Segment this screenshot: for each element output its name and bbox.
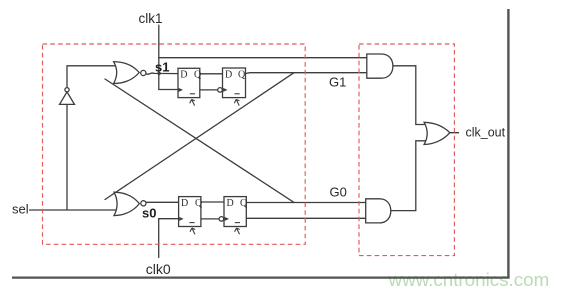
- D flip-flop 1 (top): [178, 68, 200, 97]
- reset arrow DFF1 bottom: [190, 228, 195, 234]
- node s1: [157, 72, 160, 75]
- wire sel: [30, 209, 118, 211]
- svg-text:D: D: [180, 70, 187, 81]
- clr dash DFF1 bottom: [189, 222, 194, 224]
- clr dash DFF2 top: [235, 93, 240, 95]
- wire inverter output to top NOR: [67, 66, 117, 88]
- svg-text:sel: sel: [12, 201, 29, 216]
- wire G0 line: [246, 202, 365, 204]
- wire sel to inverter: [66, 104, 68, 210]
- wire clk1 branch to AND1: [159, 57, 367, 59]
- svg-text:clk0: clk0: [146, 261, 171, 277]
- svg-text:Q: Q: [238, 70, 246, 81]
- clock triangle DFF1 bottom: [179, 217, 183, 221]
- reset arrow DFF2 top: [234, 99, 239, 105]
- wire feedback diagonal G1 to bottom NOR: [105, 73, 294, 200]
- wire between top DFFs clock: [200, 89, 218, 91]
- wire clk0 vertical: [158, 219, 160, 258]
- svg-text:Q: Q: [240, 198, 248, 209]
- svg-text:clk1: clk1: [139, 11, 163, 26]
- NOR gate top: [114, 62, 140, 84]
- svg-text:clk_out: clk_out: [466, 126, 506, 140]
- AND gate bottom: [366, 199, 391, 223]
- wire clk1 vertical: [158, 25, 160, 89]
- svg-text:D: D: [227, 198, 234, 209]
- dashed block right: [359, 44, 454, 256]
- svg-text:D: D: [181, 198, 188, 209]
- clock bubble DFF2 top: [218, 88, 223, 93]
- frame right vertical: [507, 9, 509, 278]
- svg-text:Q: Q: [195, 198, 203, 209]
- svg-text:s0: s0: [142, 206, 156, 221]
- clock triangle DFF2 top: [223, 88, 227, 92]
- clr dash DFF1 top: [190, 93, 195, 95]
- wire bottom clk0 to AND2: [246, 217, 365, 219]
- wire between bottom DFFs clock: [201, 218, 219, 220]
- wire feedback diagonal G0 to top NOR: [105, 79, 294, 202]
- svg-text:www.cntronics.com: www.cntronics.com: [388, 269, 550, 290]
- clock triangle DFF1 top: [179, 88, 183, 92]
- clock bubble DFF2 bottom: [219, 217, 224, 222]
- wire AND1 output to OR: [393, 66, 426, 125]
- D flip-flop 2 (bottom): [224, 197, 246, 227]
- svg-text:s1: s1: [155, 59, 169, 74]
- wire OR output: [450, 132, 459, 134]
- svg-text:D: D: [225, 70, 232, 81]
- reset arrow DFF2 bottom: [235, 228, 240, 234]
- wire s1 to DFF1 D: [146, 73, 178, 74]
- dashed block left: [43, 44, 306, 244]
- OR gate output: [424, 122, 450, 144]
- svg-text:G1: G1: [329, 74, 346, 89]
- reset arrow DFF1 top: [190, 99, 195, 105]
- wire AND2 output to OR: [391, 141, 426, 211]
- svg-text:Q: Q: [194, 70, 202, 81]
- wire top clock rail: [159, 89, 179, 91]
- wire G1 line: [246, 72, 367, 75]
- D flip-flop 2 (top): [223, 68, 246, 98]
- NOR gate bottom: [114, 192, 139, 215]
- AND gate top: [367, 54, 393, 78]
- D flip-flop 1 (bottom): [179, 197, 201, 227]
- wire s0 to DFF D: [146, 201, 178, 203]
- frame bottom horizontal: [12, 277, 510, 279]
- wire bottom Q1 to D2: [201, 201, 224, 203]
- clock triangle DFF2 bottom: [225, 217, 229, 221]
- clr dash DFF2 bottom: [235, 222, 240, 224]
- wire bottom clock rail: [159, 218, 179, 220]
- wire top Q1 to D2: [200, 73, 223, 75]
- svg-text:G0: G0: [330, 184, 347, 199]
- inverter (sel): [60, 92, 75, 105]
